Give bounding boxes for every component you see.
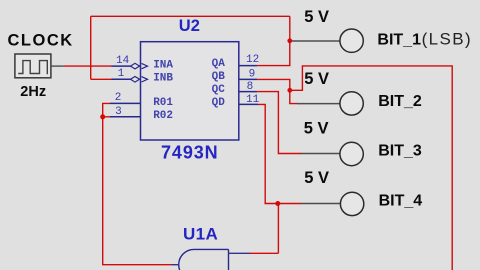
wire AND input A to QD node [250,252,278,254]
pin INB clock wedge [142,77,148,82]
svg-text:U2: U2 [179,17,200,35]
pin INB stub [112,78,141,80]
wire QB node to right edge (AND input B path) [290,66,452,270]
probe BIT_1 circle [340,29,363,52]
node R02 junction dot [100,114,105,119]
svg-text:CLOCK: CLOCK [8,31,74,49]
svg-text:2Hz: 2Hz [20,84,46,100]
pin INA clock wedge [142,63,148,68]
svg-text:5 V: 5 V [304,119,329,137]
wire QB to node [257,79,290,90]
pin INA stub [112,65,141,67]
wire QD down to BIT_4 node [258,104,278,203]
pin R01 stub [110,102,141,104]
gate U1A output stub [172,264,179,266]
pin INA diamond [131,63,140,69]
svg-text:BIT_2: BIT_2 [378,93,422,110]
svg-text:5 V: 5 V [304,8,329,26]
pin QD stub [239,103,258,105]
pin QA stub [239,65,257,67]
node QB junction dot [287,88,292,93]
svg-text:2: 2 [115,92,122,104]
wire feedback right vertical down to BIT_1 node [289,16,291,41]
wire feedback QA to INB top horizontal [91,15,290,17]
gate U1A right edge [228,249,230,270]
svg-text:R01: R01 [153,97,173,109]
svg-text:(LSB): (LSB) [422,30,472,49]
node QD junction dot [275,201,280,206]
probe BIT_3 circle [340,142,363,165]
pin QB stub [239,78,257,80]
svg-text:12: 12 [246,54,259,66]
wire feedback left vertical [90,16,92,79]
wire QC to BIT_3 [257,92,301,154]
svg-text:U1A: U1A [183,225,218,244]
pin INB diamond [131,77,140,83]
svg-text:5 V: 5 V [304,70,329,88]
svg-text:INA: INA [153,60,173,72]
node QA junction dot [287,38,292,43]
wire BIT_1 probe (gray) [292,40,340,42]
gate U1A input A stub [229,252,251,254]
wire BIT_2 probe (gray) [297,103,340,105]
svg-text:5 V: 5 V [304,169,329,187]
svg-text:11: 11 [246,94,260,106]
svg-text:BIT_4: BIT_4 [379,193,423,210]
svg-text:QD: QD [212,97,226,109]
svg-text:INB: INB [153,72,173,84]
probe BIT_2 circle [340,92,363,115]
clock source box [15,54,51,78]
probe BIT_4 circle [340,192,363,215]
svg-text:8: 8 [247,81,254,93]
clock output stub [51,65,64,67]
wire R01/R02 reset net [103,103,110,116]
svg-text:QC: QC [212,84,226,96]
svg-text:BIT_3: BIT_3 [378,143,422,160]
wire BIT_3 probe (gray) [301,153,340,155]
wire BIT_4 probe (gray) [301,203,340,205]
wire reset net down to U1A output [103,117,172,265]
svg-text:QA: QA [212,58,226,70]
IC U2 box [141,42,239,140]
wire BIT_4 probe red part [278,203,302,205]
svg-text:3: 3 [115,106,122,118]
clock square wave [18,61,47,75]
svg-text:BIT_1: BIT_1 [377,32,421,49]
svg-text:R02: R02 [153,110,173,122]
svg-text:14: 14 [116,55,130,67]
svg-text:QB: QB [212,71,226,83]
wire feedback into INB [91,78,112,80]
pin QC stub [239,91,257,93]
wire clock to INA [64,65,112,67]
svg-text:7493N: 7493N [161,143,219,163]
wire QD node down to AND input A [277,204,279,254]
pin R02 stub [110,116,141,118]
gate U1A body (AND, pointing left) [179,249,229,270]
svg-text:1: 1 [118,68,125,80]
svg-text:9: 9 [249,68,256,80]
wire QA to node [257,41,290,66]
wire QB node down to BIT_2 level [290,90,298,103]
